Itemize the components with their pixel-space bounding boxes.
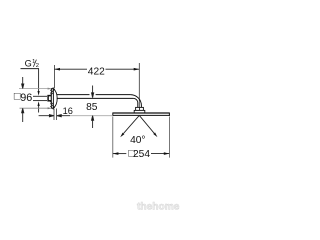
pipe nipple tube bottom edge <box>33 100 47 102</box>
dimension 85 bottom arrow <box>92 116 94 128</box>
dimension 422 left arrow <box>54 68 60 71</box>
extension line bottom of 96 (grey) <box>20 107 49 109</box>
leader underline of G 1/2 <box>21 68 40 70</box>
svg-text:254: 254 <box>133 149 150 160</box>
leader vertical of G 1/2 <box>38 69 40 92</box>
dimension 254 line left segment <box>113 153 127 155</box>
arm elbow outer curve <box>130 95 141 108</box>
svg-text:40°: 40° <box>130 135 145 146</box>
dimension 254 right arrow <box>164 152 170 155</box>
extension line left of 422 <box>53 65 55 88</box>
leader arrow up to pipe bottom <box>38 101 40 106</box>
dimension 96 bottom arrow <box>22 108 24 122</box>
svg-text:thehome: thehome <box>137 202 180 213</box>
escutcheon dome front <box>53 89 57 109</box>
spray cone left arrow <box>120 133 124 138</box>
svg-text:85: 85 <box>86 102 98 113</box>
extension line 16 left <box>53 109 55 121</box>
shower head left edge <box>112 113 114 117</box>
dimension 16 left arrow <box>39 115 54 117</box>
svg-text:96: 96 <box>20 92 32 104</box>
extension line top of 96 (grey) <box>19 88 48 90</box>
grey arrow to escutcheon top <box>48 88 52 90</box>
dimension 96 top arrow <box>22 77 24 88</box>
escutcheon back plate <box>51 89 53 109</box>
spray cone right line <box>139 115 154 133</box>
extension line 254 left <box>112 117 114 158</box>
pipe nipple tube top edge <box>33 95 47 97</box>
escutcheon dome shading top <box>50 88 55 110</box>
svg-text:422: 422 <box>88 66 105 77</box>
dimension 422 line left segment <box>54 68 87 70</box>
arm tube bottom edge <box>57 97 134 99</box>
leader tail below pipe <box>38 106 40 113</box>
arm tube top edge right of break <box>96 94 131 96</box>
leader arrow down to pipe top <box>38 91 40 96</box>
spray cone left line <box>124 115 140 133</box>
dimension 16 right arrow <box>57 115 70 117</box>
pipe thread collar <box>48 96 51 101</box>
svg-text:G: G <box>25 58 32 68</box>
arm elbow inner curve <box>133 98 137 107</box>
reference line to head bottom (grey) <box>70 115 113 117</box>
grey arrow to escutcheon bottom <box>48 107 52 109</box>
svg-text:16: 16 <box>63 106 73 116</box>
extension line right of 422 <box>138 63 140 107</box>
ball joint collar <box>136 107 144 110</box>
dimension 85 top arrow <box>92 86 94 98</box>
spray cone right arrow <box>153 133 157 138</box>
ball joint nut <box>134 110 145 113</box>
dimension 254 left arrow <box>113 152 119 155</box>
shower head right edge <box>168 113 170 117</box>
dimension 422 right arrow <box>134 68 140 71</box>
shower head top face line <box>113 112 170 114</box>
extension line 254 right <box>168 117 170 158</box>
extension line 16 right <box>56 109 58 121</box>
shower head bottom face line <box>113 114 170 116</box>
dimension 422 line right segment <box>106 68 140 70</box>
arm tube top edge left of break <box>57 94 90 96</box>
ball joint collar split <box>139 107 141 110</box>
dimension 254 line right segment <box>151 153 169 155</box>
